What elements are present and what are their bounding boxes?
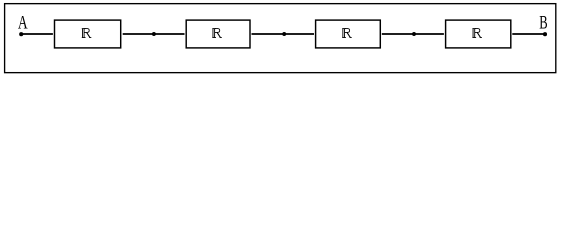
- wire R4 to B: [512, 33, 545, 35]
- junction node 1: [152, 32, 156, 36]
- node B dot: [543, 32, 547, 36]
- resistor R2: [186, 20, 250, 48]
- node A dot: [19, 32, 23, 36]
- wire R3 to R4: [382, 33, 444, 35]
- svg-text:A: A: [18, 13, 28, 34]
- wire R2 to R3: [252, 33, 315, 35]
- wire A to R1: [21, 33, 53, 35]
- border frame: [5, 4, 556, 73]
- label R1 value: [82, 29, 92, 38]
- resistor R1: [55, 20, 121, 48]
- resistor R3: [316, 20, 381, 48]
- label R3 value: [342, 29, 352, 38]
- wire R1 to R2: [123, 33, 185, 35]
- junction node 2: [282, 32, 286, 36]
- svg-text:B: B: [539, 13, 547, 34]
- label R4 value: [472, 29, 482, 38]
- junction node 3: [412, 32, 416, 36]
- resistor R4: [446, 20, 511, 48]
- label R2 value: [212, 29, 222, 38]
